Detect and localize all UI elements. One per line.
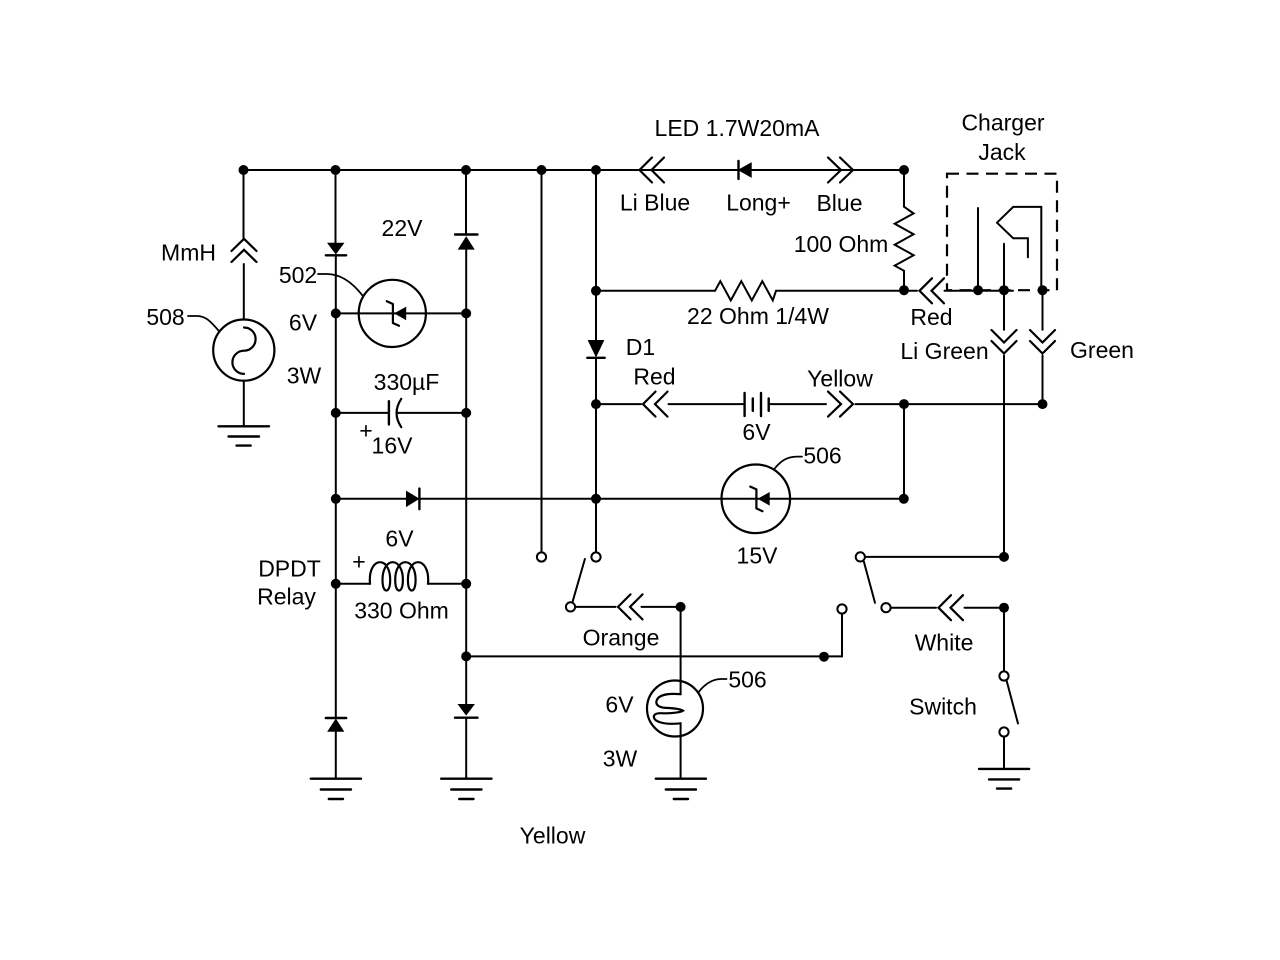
junction: y=499 right [899, 494, 909, 504]
zener symbol inside 506 [750, 487, 768, 512]
svg-text:508: 508 [146, 304, 184, 330]
contact: relay pole A [537, 552, 546, 561]
diode D1 (cathode down) [587, 341, 604, 358]
wire: x=1042 to y=404 [1042, 356, 1044, 405]
leader line for 506 (lamp) [698, 679, 726, 693]
wire: y=404 segments [596, 403, 1043, 405]
junction: y=290 / rail x=596 [591, 286, 601, 296]
svg-text:Red: Red [633, 364, 675, 390]
LED polarity mark Long+ [739, 161, 751, 179]
jack pin 2 [1003, 244, 1005, 290]
wire: rail x=596 below D1 [595, 358, 597, 553]
zener symbol inside 502 [387, 301, 405, 326]
junction: 502 right [461, 308, 471, 318]
svg-text:White: White [915, 630, 974, 656]
junction: y=290 / jack pin 1 [973, 285, 983, 295]
chevron Li Green (down) [992, 330, 1017, 354]
regulator 502 circle [359, 280, 426, 347]
svg-text:330 Ohm: 330 Ohm [354, 598, 449, 624]
junction: capacitor right [461, 408, 471, 418]
chevron Red (y=290) [920, 278, 945, 303]
svg-text:+: + [352, 549, 365, 575]
svg-text:330µF: 330µF [374, 369, 440, 395]
wire: y=290 segments [596, 290, 1013, 292]
svg-text:Blue: Blue [816, 190, 862, 216]
junction: y=656 / rail x=466 [461, 651, 471, 661]
svg-text:3W: 3W [603, 746, 638, 772]
contact: lower switch bottom [999, 727, 1008, 736]
junction: top rail / 100 Ohm [899, 165, 909, 175]
svg-text:LED 1.7W20mA: LED 1.7W20mA [655, 115, 821, 141]
connector MmH double chevron [232, 239, 257, 262]
svg-text:506: 506 [728, 667, 766, 693]
jack plug body [997, 207, 1041, 290]
svg-text:6V: 6V [289, 310, 318, 336]
chevron White [939, 595, 964, 620]
diode (rail x=466, cathode up, 22V) [455, 235, 478, 249]
svg-text:MmH: MmH [161, 240, 216, 266]
relay coil 330 Ohm [370, 562, 428, 590]
wire: LED string y=170 segments [596, 169, 904, 171]
wire: through 502 y=313 [336, 312, 466, 314]
switch lever (lower Switch) [1007, 680, 1019, 723]
chevron Green (down) [1030, 330, 1055, 354]
svg-text:Yellow: Yellow [520, 823, 586, 849]
contact: relay pole B [591, 552, 600, 561]
junction: Orange contact / lamp branch [676, 602, 686, 612]
junction: y=290 / 100 Ohm [899, 285, 909, 295]
leader line for 506 (15V) [775, 457, 803, 469]
jack pin 1 [977, 208, 979, 290]
svg-text:16V: 16V [372, 433, 414, 459]
wire: y=499 left segment [336, 498, 407, 500]
wire: y=499 right segment [419, 498, 903, 500]
svg-text:22 Ohm 1/4W: 22 Ohm 1/4W [687, 303, 829, 329]
junction: capacitor left [331, 408, 341, 418]
wire: rail x=466 top [465, 170, 467, 235]
wire: switch common y=557 [865, 556, 1004, 558]
chevron Li Blue (LED string) [640, 158, 665, 183]
diode (y=499, anode left) [407, 489, 419, 510]
wire: x=1004 to lower switch [1003, 608, 1005, 672]
wire: x=1004 above Li Green chevron [1003, 290, 1005, 330]
contact: Orange throw [566, 602, 575, 611]
resistor 22 Ohm 1/4W (horizontal) [715, 281, 776, 300]
svg-text:Charger: Charger [961, 110, 1044, 136]
svg-text:Yellow: Yellow [807, 366, 873, 392]
wire: riser to contact x=842 [841, 614, 843, 657]
ground (switch) [979, 769, 1029, 789]
ground (AC source) [219, 426, 270, 445]
svg-text:506: 506 [803, 443, 841, 469]
ground (lamp) [656, 779, 706, 799]
svg-text:Li Green: Li Green [900, 338, 988, 364]
svg-text:Relay: Relay [257, 584, 316, 610]
junction: coil left [331, 579, 341, 589]
svg-text:502: 502 [279, 262, 317, 288]
svg-text:DPDT: DPDT [258, 556, 321, 582]
diode (rail x=466 bottom, cathode down) [455, 705, 478, 718]
svg-text:22V: 22V [382, 215, 424, 241]
junction: y=499 left [331, 494, 341, 504]
svg-text:Li Blue: Li Blue [620, 190, 690, 216]
switch lever (White switch) [864, 562, 875, 603]
svg-text:Long+: Long+ [726, 190, 791, 216]
junction: y=656 end node [819, 652, 829, 662]
diode (left rail, cathode down) [326, 244, 346, 256]
svg-text:15V: 15V [737, 543, 779, 569]
junction: coil right [461, 579, 471, 589]
junction: 502 left [331, 308, 341, 318]
wire: rail x=466 middle [465, 249, 467, 705]
chevron Red (y=404) [643, 392, 668, 417]
wire: rail x=466 to ground [465, 718, 467, 779]
contact: lower switch top [999, 671, 1008, 680]
junction: top rail / rail x=541 [537, 165, 547, 175]
junction: top rail / AC branch [239, 165, 249, 175]
contact: x=842 throw [837, 604, 846, 613]
ground (left rail) [311, 779, 361, 799]
svg-text:Green: Green [1070, 337, 1134, 363]
wire: relay coil left lead [336, 583, 370, 585]
wire: left rail x=335 middle [335, 255, 337, 718]
lamp 506 envelope [647, 681, 703, 737]
svg-text:Orange: Orange [583, 625, 660, 651]
junction: y=499 / rail x=596 [591, 494, 601, 504]
svg-text:6V: 6V [605, 692, 634, 718]
svg-text:Switch: Switch [909, 694, 977, 720]
junction: White contact / x=1004 [999, 603, 1009, 613]
wire: top supply rail y=170 [244, 169, 905, 171]
junction: switch common / x=1004 [999, 552, 1009, 562]
wire: lamp to ground [680, 723, 682, 778]
AC source 508 [213, 320, 274, 381]
svg-text:Jack: Jack [978, 139, 1026, 165]
leader line for 508 [188, 316, 219, 331]
wire: MmH to AC source [243, 264, 245, 319]
wire: Orange contact y=607 [576, 606, 681, 608]
svg-text:6V: 6V [742, 419, 771, 445]
svg-text:6V: 6V [385, 526, 414, 552]
wire: lower switch to ground [1003, 737, 1005, 769]
junction: y=404 / x=904 [899, 399, 909, 409]
chevron Yellow (y=404) [828, 392, 853, 417]
wire: y=656 run to relay contact [466, 655, 842, 657]
switch lever (Orange switch) [573, 559, 585, 602]
junction: y=290 / jack sleeve [1038, 285, 1048, 295]
wire: lamp branch upper x=680 [680, 607, 682, 694]
wire: x=1042 above Green chevron [1042, 290, 1044, 330]
regulator 506 circle (15V) [722, 465, 791, 534]
diode (left rail bottom, cathode up) [326, 718, 346, 731]
wire: left rail x=335 top [335, 170, 337, 244]
battery 6V [745, 393, 769, 416]
junction: top rail / rail x=466 [461, 165, 471, 175]
wire: x=904 from y=404 to y=499 [903, 404, 905, 499]
wire: White contact y=607 [891, 607, 1005, 609]
contact: White throw [881, 603, 890, 612]
wire: AC source to ground [243, 381, 245, 426]
wire: rail x=596 top [595, 170, 597, 341]
svg-text:Red: Red [910, 304, 952, 330]
wire: AC source branch top x=243 [243, 170, 245, 238]
chevron Blue (LED string) [828, 158, 853, 183]
wire: left rail to ground [335, 731, 337, 779]
charger jack dashed outline [947, 174, 1057, 291]
svg-text:100 Ohm: 100 Ohm [794, 231, 889, 257]
svg-text:D1: D1 [626, 334, 655, 360]
resistor 100 Ohm (vertical) [895, 170, 914, 290]
ground (rail x=466) [441, 779, 491, 799]
junction: top rail / rail x=596 [591, 165, 601, 175]
junction: y=290 / jack pin 2 [999, 285, 1009, 295]
junction: top rail / left rail [331, 165, 341, 175]
junction: y=404 / x=1042 [1038, 399, 1048, 409]
svg-text:3W: 3W [287, 363, 322, 389]
wire: rail x=541 to relay contact [541, 170, 543, 552]
capacitor 330uF 16V [336, 399, 466, 427]
contact: White switch common [856, 552, 865, 561]
wire: x=1004 to switch common [1003, 356, 1005, 557]
leader line for 502 [318, 274, 363, 296]
chevron Orange [618, 594, 643, 619]
junction: y=404 / rail x=596 [591, 399, 601, 409]
lamp filament [654, 694, 683, 724]
wire: relay coil right lead [428, 583, 466, 585]
